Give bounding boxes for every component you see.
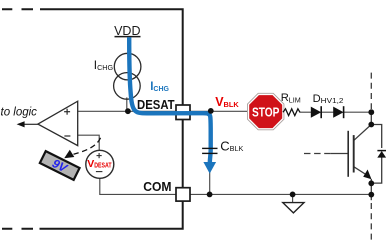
svg-text:RLIM: RLIM — [281, 92, 301, 104]
svg-text:VDESAT: VDESAT — [87, 158, 112, 170]
svg-text:to logic: to logic — [1, 106, 38, 118]
svg-text:STOP: STOP — [252, 105, 280, 120]
svg-text:VBLK: VBLK — [215, 95, 239, 109]
svg-text:ICHG: ICHG — [94, 58, 114, 72]
svg-text:CBLK: CBLK — [220, 138, 243, 153]
svg-text:DESAT: DESAT — [137, 97, 175, 112]
svg-text:ICHG: ICHG — [150, 81, 169, 93]
svg-text:DHV1,2: DHV1,2 — [313, 93, 344, 105]
svg-text:COM: COM — [143, 179, 171, 194]
